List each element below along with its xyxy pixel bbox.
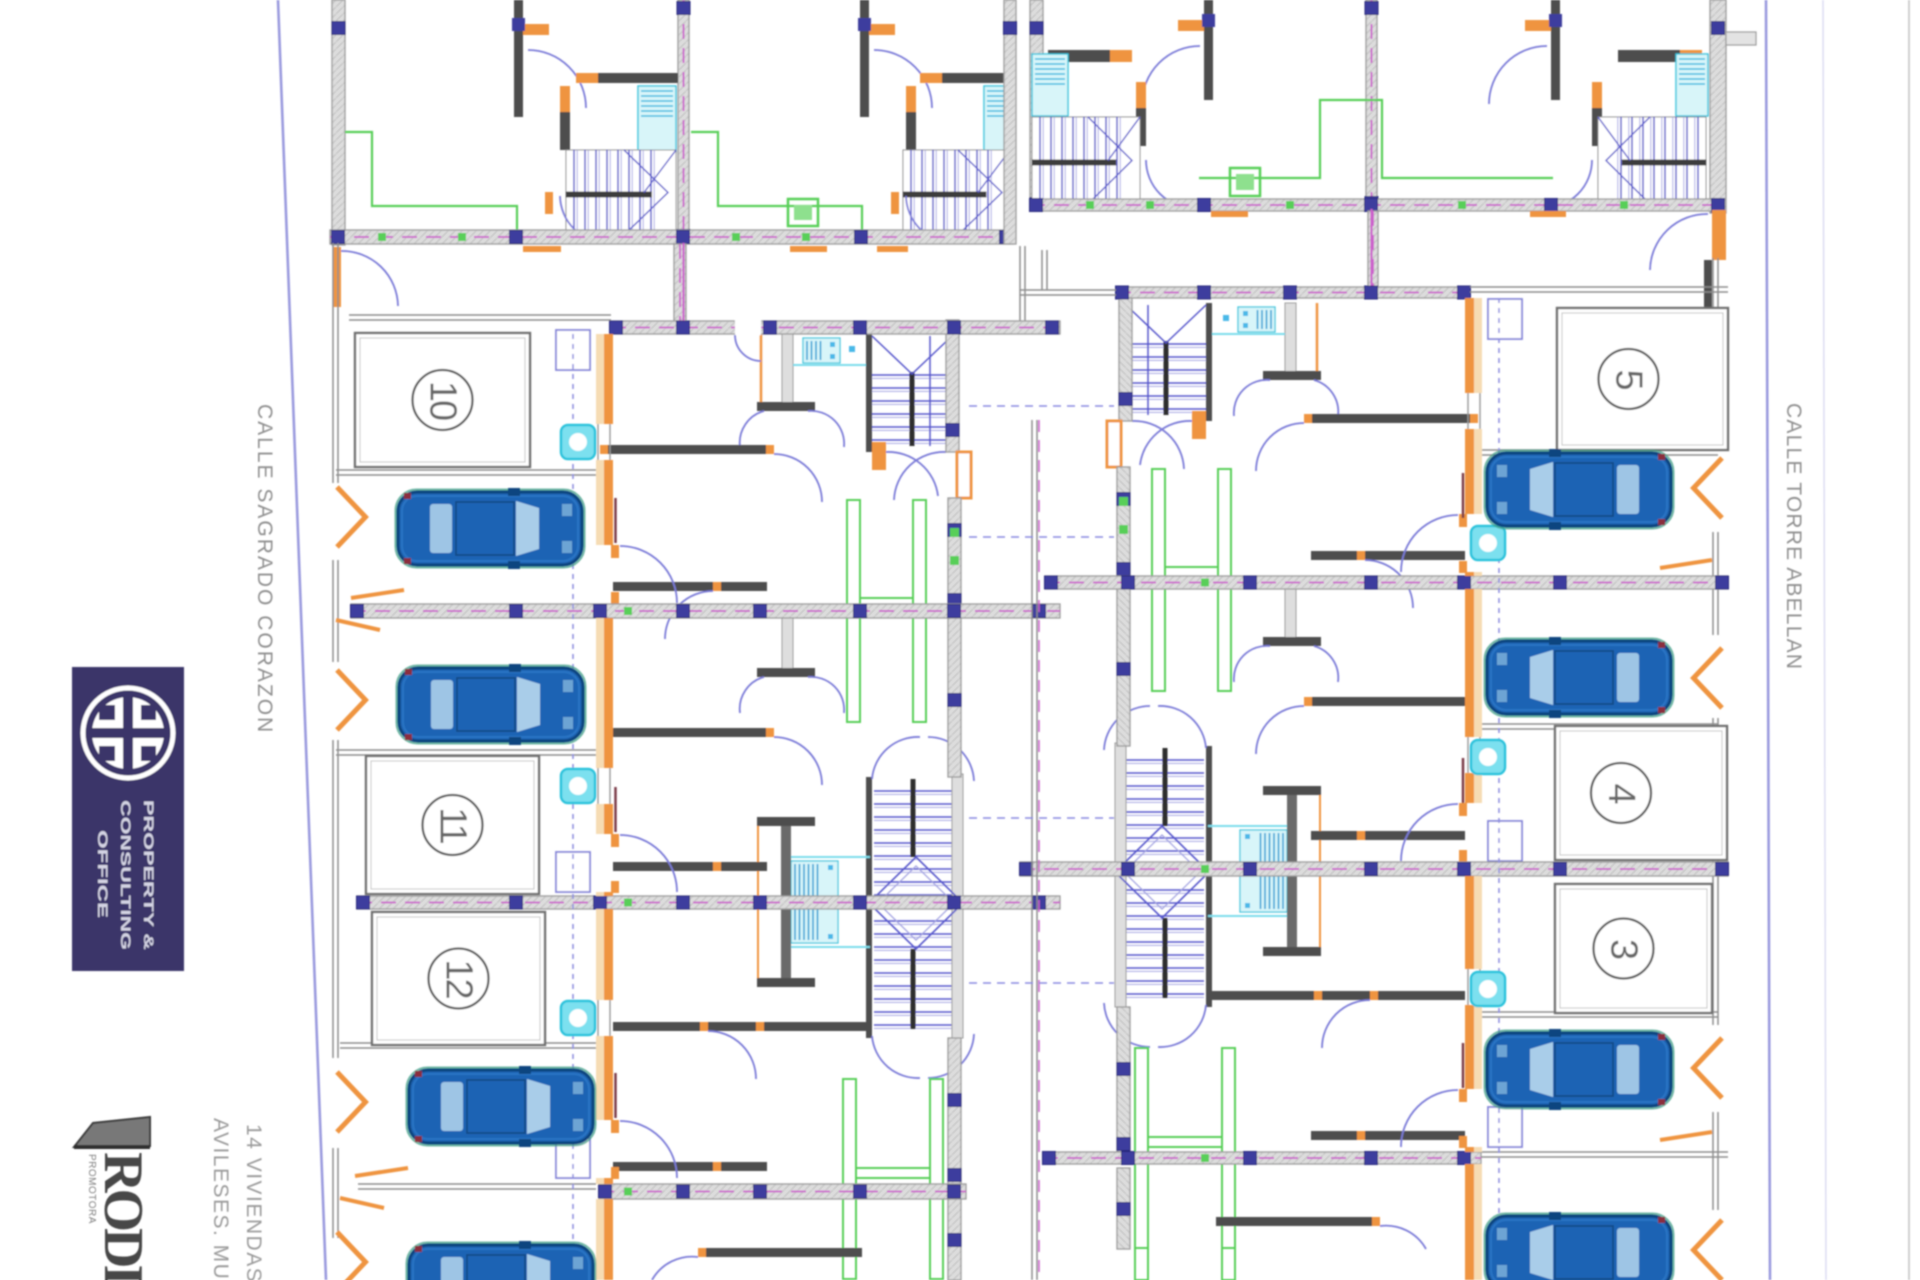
patio gate left xyxy=(333,247,341,307)
WC door arc 2b xyxy=(1234,646,1270,682)
flange wall unit 2 xyxy=(757,668,815,677)
party wall units 3-4 xyxy=(599,1184,967,1199)
bedroom wall unit 2 south xyxy=(613,862,767,871)
kitchen counter unit L2 xyxy=(691,132,862,230)
rear wall unit 4 xyxy=(948,1199,961,1280)
A/C unit 2 xyxy=(1240,830,1287,912)
stair wall 1 xyxy=(866,334,872,452)
pergola unit 1 xyxy=(1152,469,1231,691)
drain xyxy=(561,769,595,803)
parcel dashed line right xyxy=(1498,298,1500,1280)
rear wall unit 1 xyxy=(946,320,959,452)
court street wall right xyxy=(1713,718,1718,1025)
svg-text:10: 10 xyxy=(422,381,464,420)
rear wall unit 1 xyxy=(1119,289,1132,421)
stairs unit R1 xyxy=(1032,117,1140,204)
hall door arc R1 xyxy=(1146,160,1194,208)
shelf line unit 1 xyxy=(1212,333,1285,335)
door arc unit R2 xyxy=(1489,46,1547,104)
left building right wall xyxy=(1004,0,1017,244)
driveway gate mark xyxy=(1694,458,1723,518)
sheet frame line right xyxy=(1908,0,1910,1280)
meter box xyxy=(556,1138,590,1178)
stair wall 2-3 xyxy=(866,777,872,1038)
parcel line xyxy=(1482,1012,1718,1017)
door stub L2 xyxy=(906,112,916,150)
svg-text:14 VIVIENDAS AD: 14 VIVIENDAS AD xyxy=(242,1124,265,1280)
party wall axis 2 xyxy=(677,0,690,243)
patio south wall xyxy=(349,315,611,320)
court street wall right xyxy=(1713,1112,1718,1210)
door arc unit L1 xyxy=(528,50,586,108)
shower unit L1 xyxy=(638,86,676,152)
kitchen counter right building xyxy=(1199,100,1553,178)
svg-text:OFFICE: OFFICE xyxy=(95,830,111,918)
pergola unit RC extension xyxy=(1135,1248,1148,1280)
party wall axis 5 xyxy=(1365,0,1378,210)
svg-text:CALLE TORRE ABELLAN: CALLE TORRE ABELLAN xyxy=(1782,403,1805,670)
car at plot 2 (cut) xyxy=(1485,1212,1674,1280)
court street wall xyxy=(333,740,338,1058)
A/C unit 1 xyxy=(803,338,840,363)
rear wall unit 1 lower xyxy=(1117,467,1130,580)
court street wall xyxy=(333,1148,338,1238)
WC door arc 1a xyxy=(1314,380,1338,416)
stair wall 1 xyxy=(1206,303,1212,421)
door arc unit R1 xyxy=(1142,46,1200,104)
bedroom wall unit 2 south xyxy=(1311,831,1465,840)
stair exit arc 3b xyxy=(1104,1003,1150,1047)
patio fence line 2 xyxy=(1042,250,1047,290)
partition unit 3 xyxy=(1208,991,1465,1000)
shower feed line L1 xyxy=(639,152,641,160)
axis line continuation 5 xyxy=(1370,209,1372,293)
hall door arc L1 xyxy=(560,196,608,243)
A/C unit 1 xyxy=(1238,307,1275,332)
parking plot 4 xyxy=(1555,726,1727,860)
entry door arc 2 xyxy=(1401,804,1458,861)
unit 4 wall xyxy=(1474,1168,1479,1249)
bedroom door arc 1 xyxy=(1365,560,1413,608)
car at plot 5 xyxy=(1485,449,1674,530)
drain xyxy=(1471,526,1505,560)
entry door arc 3 xyxy=(1401,1090,1458,1147)
svg-text:4: 4 xyxy=(1600,783,1642,804)
A/C closet unit 1 xyxy=(1285,303,1296,373)
stair door arc 1a xyxy=(886,452,938,496)
left building ground floor interiors xyxy=(556,320,974,1280)
svg-text:3: 3 xyxy=(1603,939,1645,959)
bedroom wall unit L1 xyxy=(514,0,523,117)
logo RODI promotora xyxy=(74,1117,154,1280)
door stub R2 xyxy=(1592,108,1602,146)
gate mark xyxy=(1660,1132,1712,1140)
kitchen appliance unit R1 xyxy=(1230,168,1260,196)
bedroom wall unit 3 south xyxy=(1311,1131,1465,1140)
left building first floor south wall xyxy=(330,230,1013,244)
right building first floor south wall xyxy=(1030,199,1725,212)
entry door unit 3 xyxy=(1459,1089,1467,1102)
WC door arc 1b xyxy=(1234,380,1270,416)
court street wall right xyxy=(1713,258,1718,448)
WC door arc 2a xyxy=(1314,646,1338,682)
drain xyxy=(1471,972,1505,1006)
pergola unit 3 xyxy=(1135,1048,1235,1248)
entry door arc 1 xyxy=(620,546,677,603)
parcel line xyxy=(1482,450,1718,455)
shelf lines units 2-3 xyxy=(788,856,870,858)
flange wall unit 2 xyxy=(1263,637,1321,646)
bedroom wall unit 1 south xyxy=(613,582,767,591)
WC wall unit R1 xyxy=(1048,50,1110,62)
meter box xyxy=(1488,1107,1522,1147)
right building ground floor interiors (mirrored) xyxy=(1104,289,1522,1249)
left building facade wall xyxy=(596,334,616,1280)
WC door arc 1a xyxy=(740,411,764,447)
kitchen counter unit L1 xyxy=(345,132,517,230)
gate mark xyxy=(336,620,380,630)
svg-text:CONSULTING: CONSULTING xyxy=(118,800,134,950)
WC wall unit L1 xyxy=(598,73,678,83)
parcel line xyxy=(336,750,596,755)
right building left wall xyxy=(1030,0,1043,211)
room door arc 1 xyxy=(774,454,822,502)
entry door unit 2 xyxy=(1459,803,1467,816)
partition unit 3 xyxy=(613,1022,870,1031)
patio gate right xyxy=(1712,210,1726,260)
entry door unit 1 xyxy=(1459,514,1467,527)
bedroom door arc 1 xyxy=(665,591,713,639)
room door arc 2 xyxy=(1256,706,1304,754)
driveway gate mark xyxy=(1694,1038,1723,1098)
survey dashed line xyxy=(969,536,1114,538)
room door arc 3 xyxy=(1322,1000,1370,1048)
rear wall unit 3 xyxy=(948,1038,961,1184)
A/C unit 2 xyxy=(791,861,838,943)
stairs unit L1 xyxy=(566,150,676,235)
drain xyxy=(561,1001,595,1035)
shower feed line R1 xyxy=(1065,116,1067,126)
entry door arc 1 xyxy=(1401,515,1458,572)
parking plot 12 xyxy=(372,912,545,1045)
gate mark xyxy=(351,590,404,598)
parking plot 5 xyxy=(1557,308,1728,450)
right parking court xyxy=(1020,258,1729,1280)
bedroom wall unit R1 xyxy=(1204,0,1213,100)
door stub L1 xyxy=(560,112,570,150)
rear door frame unit 1 xyxy=(957,452,971,498)
hall door arc L2 xyxy=(906,196,954,243)
left building ground floor north wall xyxy=(610,321,1061,334)
patio wall left stub xyxy=(1020,290,1116,295)
right building outer wall xyxy=(1710,0,1726,213)
parcel line xyxy=(340,1043,596,1048)
upper floor plan: left building xyxy=(330,0,1017,245)
stair door arc 1b xyxy=(894,452,946,500)
entry door unit 3 xyxy=(611,1120,619,1133)
bedroom wall unit L2 xyxy=(860,0,869,117)
right patio wall stub xyxy=(1704,260,1712,312)
meter box xyxy=(556,852,590,892)
WC wall unit R2 xyxy=(1618,50,1680,62)
steel column I-beam xyxy=(757,817,815,987)
room door arc 4 xyxy=(1380,1226,1426,1249)
stair exit arc 3a xyxy=(872,1036,920,1078)
bedroom wall unit 3 south xyxy=(613,1162,767,1171)
street boundary line (Calle Torre Abellan) xyxy=(1766,0,1770,1280)
right building ground floor north wall xyxy=(1116,286,1471,299)
patio wall right xyxy=(1470,287,1728,292)
room door arc 3 xyxy=(708,1031,756,1079)
logo Property & Consulting Office box xyxy=(72,667,184,971)
car at plot 10 xyxy=(396,488,585,569)
stair wall 2-3 xyxy=(1206,746,1212,1007)
top stub unit 2 xyxy=(782,618,793,670)
shower unit R1 xyxy=(1032,54,1068,116)
partition unit 1 xyxy=(608,445,766,454)
partition unit 2 xyxy=(608,728,766,737)
meter box xyxy=(1488,299,1522,339)
partition unit 1 xyxy=(1312,414,1470,423)
shower unit L2 xyxy=(984,86,1012,152)
svg-text:RODI: RODI xyxy=(92,1152,154,1280)
A/C closet unit 1 xyxy=(782,334,793,404)
stair door arc 1b xyxy=(1132,421,1184,469)
car at plot 11 xyxy=(397,664,586,745)
entry door unit 1 xyxy=(611,545,619,558)
entry door arc 2 xyxy=(620,835,677,892)
svg-text:5: 5 xyxy=(1608,369,1650,389)
gate mark xyxy=(355,1168,408,1176)
patio fence line xyxy=(1020,246,1025,330)
left outer wall xyxy=(332,0,345,245)
car at plot 6 xyxy=(1485,637,1674,718)
meter box xyxy=(1488,821,1522,861)
stair exit arc 3a xyxy=(1158,1005,1206,1047)
driveway gate mark xyxy=(337,487,366,547)
court garden wall xyxy=(358,1184,596,1189)
svg-text:11: 11 xyxy=(432,807,474,843)
stair entry arc 2a xyxy=(872,737,920,779)
car at plot 12 xyxy=(407,1066,596,1147)
logo EB emblem circle xyxy=(83,688,173,778)
stair entry arc 2a xyxy=(1158,706,1206,748)
room door arc 4 xyxy=(652,1257,698,1280)
pergola unit 3 xyxy=(843,1079,943,1279)
gate mark xyxy=(1660,560,1712,568)
door stub R1 xyxy=(1136,108,1146,146)
WC door arc 2a xyxy=(740,677,764,713)
rear wall unit 4 xyxy=(1117,1168,1130,1249)
room door arc 1 xyxy=(1256,423,1304,471)
survey dashed line xyxy=(969,982,1114,984)
survey dashed line xyxy=(969,817,1114,819)
rear patio door gap xyxy=(735,320,761,335)
stairs unit R2 xyxy=(1598,117,1706,204)
kitchen appliance unit L2 xyxy=(788,199,818,226)
rear wall unit 1 lower xyxy=(948,498,961,611)
party wall units 2-3 xyxy=(357,896,1061,909)
stair entry arc 2b xyxy=(928,737,974,781)
party wall axis 2 continuation xyxy=(674,244,686,321)
driveway gate mark xyxy=(337,1072,366,1132)
driveway gate mark xyxy=(337,1232,366,1280)
door arc unit L2 xyxy=(874,50,932,108)
stair entry arc 2b xyxy=(1104,706,1150,750)
partition unit 4 xyxy=(1216,1217,1372,1226)
driveway gate mark xyxy=(1694,648,1723,708)
steel column I-beam xyxy=(1263,786,1321,956)
stair door arc 1a xyxy=(1140,421,1192,465)
stairs unit L2 xyxy=(903,150,1010,235)
patio gate arc left xyxy=(341,251,398,306)
balcony stub top right xyxy=(1726,32,1756,45)
car at plot 13 (cut) xyxy=(407,1241,596,1280)
rear wall unit 2 xyxy=(1117,587,1130,746)
drain xyxy=(1471,740,1505,774)
court street wall xyxy=(333,243,338,483)
parking plot 3 xyxy=(1555,884,1712,1013)
survey dashed line xyxy=(969,405,1114,407)
court street wall xyxy=(333,560,338,662)
meter box xyxy=(556,330,590,370)
top stub unit 2 xyxy=(1285,587,1296,639)
car at plot 3 xyxy=(1485,1029,1674,1110)
stair exit arc 3b xyxy=(928,1034,974,1078)
svg-text:PROPERTY &: PROPERTY & xyxy=(141,800,157,950)
hall door arc R2 xyxy=(1544,160,1592,208)
party wall units A-B xyxy=(1045,576,1729,589)
parcel dashed line xyxy=(572,334,574,1280)
party wall units B-C xyxy=(1020,862,1729,876)
court street wall right xyxy=(1713,532,1718,635)
shelf line unit 1 xyxy=(793,364,866,366)
parcel line xyxy=(1482,724,1718,729)
parking plot 11 xyxy=(366,756,539,894)
entry door unit 2 xyxy=(611,834,619,847)
shower unit R2 xyxy=(1676,54,1708,116)
svg-text:AVILESES. MUR: AVILESES. MUR xyxy=(209,1118,232,1280)
gate mark xyxy=(340,1198,384,1208)
entry door arc 3 xyxy=(620,1121,677,1178)
flange wall unit 1 xyxy=(757,402,815,411)
faint secondary boundary line right xyxy=(1823,0,1826,1280)
WC wall unit L2 xyxy=(942,73,1009,83)
party wall units 1-2 xyxy=(351,604,1061,618)
parking plot 10 xyxy=(355,333,530,467)
partition unit 2 xyxy=(1312,697,1470,706)
svg-text:CALLE SAGRADO CORAZON: CALLE SAGRADO CORAZON xyxy=(253,404,276,734)
boundary wall between buildings xyxy=(1032,420,1037,1280)
unit 4 wall xyxy=(599,1199,604,1280)
party wall axis 5 continuation xyxy=(1368,211,1378,287)
drain xyxy=(561,425,595,459)
rear door frame unit 1 xyxy=(1107,421,1121,467)
terrace door sills xyxy=(523,246,561,252)
bedroom wall unit R2 xyxy=(1551,0,1560,100)
WC door arc 1b xyxy=(808,411,844,447)
pergola unit 1 xyxy=(847,500,926,722)
axis line continuation 2 xyxy=(682,243,684,330)
driveway gate mark xyxy=(1694,1220,1723,1280)
boundary axis dashed xyxy=(1038,420,1040,1280)
upper floor plan: right building xyxy=(1030,0,1757,213)
rear wall unit 3 xyxy=(1117,1007,1130,1153)
svg-text:PROMOTORA: PROMOTORA xyxy=(86,1154,97,1224)
shelf lines units 2-3 xyxy=(1208,825,1290,827)
flange wall unit 1 xyxy=(1263,371,1321,380)
partition unit 4 xyxy=(706,1248,862,1257)
svg-text:12: 12 xyxy=(438,959,480,998)
WC door arc 2b xyxy=(808,677,844,713)
party wall units C-D xyxy=(1043,1152,1482,1165)
court garden wall right xyxy=(1481,1152,1728,1157)
parcel line xyxy=(336,470,596,475)
right building facade wall xyxy=(1463,298,1482,1280)
bedroom wall unit 1 south xyxy=(1311,551,1465,560)
left parking court xyxy=(333,243,1060,1280)
driveway gate mark xyxy=(337,670,366,730)
street boundary line (Calle Sagrado Corazon) xyxy=(278,0,326,1280)
room door arc 2 xyxy=(774,737,822,785)
patio gate arc right xyxy=(1650,214,1708,270)
rear wall unit 2 xyxy=(948,618,961,777)
